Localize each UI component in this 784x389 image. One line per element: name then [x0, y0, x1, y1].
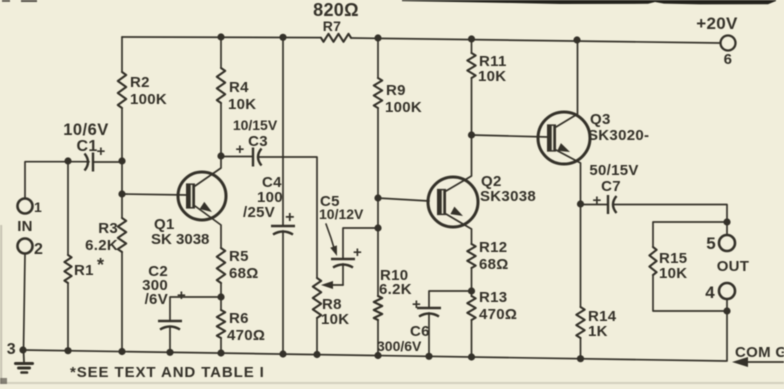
svg-text:+: +	[177, 287, 186, 304]
wire: C5 branch from base divider	[343, 228, 378, 258]
node: C5 tap	[374, 224, 381, 231]
svg-text:50/15V: 50/15V	[589, 162, 638, 179]
resistor R15	[649, 247, 656, 275]
wire: collector to C3	[221, 156, 253, 158]
wire: C7 to output	[614, 205, 727, 236]
resistor R6	[217, 310, 225, 338]
svg-text:3: 3	[7, 341, 16, 358]
svg-text:*SEE TEXT AND TABLE I: *SEE TEXT AND TABLE I	[70, 364, 265, 381]
svg-text:4: 4	[705, 283, 715, 302]
svg-text:+20V: +20V	[696, 14, 738, 33]
svg-text:R3: R3	[98, 220, 118, 237]
node 3	[19, 346, 26, 353]
svg-text:10K: 10K	[659, 265, 687, 282]
capacitor C4 100/25V	[271, 225, 295, 227]
node: rail / Q3 collector	[573, 36, 580, 43]
wire: to C7	[581, 204, 609, 206]
wire: +20V top rail left section	[122, 36, 321, 39]
wire: C1 to base column	[93, 161, 122, 163]
capacitor C5 10/12V	[331, 258, 355, 260]
transistor Q3	[538, 112, 590, 164]
svg-text:+: +	[96, 143, 105, 160]
svg-text:10/6V: 10/6V	[63, 121, 109, 139]
svg-text:+: +	[235, 141, 244, 158]
terminal 5 OUT	[719, 235, 735, 251]
svg-text:10/12V: 10/12V	[319, 206, 364, 222]
svg-text:SK3038: SK3038	[480, 188, 536, 205]
svg-text:/25V: /25V	[243, 204, 275, 221]
wire: R1 column	[67, 161, 69, 255]
svg-text:+: +	[285, 209, 295, 226]
wire: R11 from rail	[471, 39, 473, 53]
svg-text:R13: R13	[479, 289, 507, 306]
resistor R7 820 ohm (series in rail)	[321, 34, 351, 42]
svg-text:R5: R5	[229, 248, 249, 265]
wire: R4 column from rail	[220, 37, 222, 68]
wire R6 to ground	[220, 338, 222, 353]
svg-text:R2: R2	[130, 74, 150, 91]
wire: R8 to ground	[316, 318, 318, 355]
wire: Q1 base lead	[122, 194, 187, 195]
wire/loop: R15 branch	[653, 222, 727, 247]
resistor R12	[467, 244, 475, 268]
svg-text:6.2K: 6.2K	[379, 281, 412, 298]
wire: C4 to ground	[282, 231, 284, 354]
svg-text:C1: C1	[76, 138, 97, 155]
wire: R9 column from rail	[377, 38, 379, 78]
wire: C5 bottom to wiper	[342, 264, 344, 285]
terminal 6 +20V	[721, 36, 736, 51]
resistor R13	[467, 296, 475, 320]
capacitor C7 50/15V	[607, 195, 609, 214]
scan artifact: left edge shading	[0, 225, 2, 384]
svg-text:+: +	[412, 296, 421, 313]
svg-text:2: 2	[34, 241, 43, 258]
wire: emitter down to R14	[580, 204, 582, 307]
svg-text:10K: 10K	[478, 68, 506, 85]
wire: down to base node	[121, 161, 123, 194]
wire: base node to R3	[121, 194, 123, 218]
wire: R2 column from rail down to C1 node	[121, 37, 123, 72]
svg-text:R7: R7	[323, 18, 342, 34]
potentiometer R8 10K	[313, 278, 321, 318]
svg-text:1K: 1K	[588, 323, 608, 340]
terminal 2 IN	[18, 239, 33, 254]
Q1 collector lead	[195, 156, 221, 186]
wire R12-R13	[471, 268, 473, 296]
svg-text:R9: R9	[386, 82, 406, 99]
wire: C4 column from rail (crosses C3 wire, no connection)	[282, 37, 284, 225]
svg-text:R1: R1	[74, 262, 94, 279]
transistor Q1	[178, 172, 226, 220]
resistor R10	[374, 296, 382, 320]
svg-text:Q3: Q3	[590, 111, 611, 128]
svg-text:100K: 100K	[385, 99, 422, 116]
wire: C3 to R8 pot top	[259, 157, 317, 278]
svg-text:C3: C3	[248, 133, 268, 150]
wire: R15 bottom to term4 node	[653, 275, 727, 311]
node: rail / R4 column	[217, 33, 224, 40]
resistor R2	[118, 72, 126, 108]
svg-text:SK3020-: SK3020-	[588, 127, 649, 144]
svg-text:10K: 10K	[321, 311, 349, 328]
resistor R11	[467, 53, 475, 78]
svg-text:+: +	[592, 192, 601, 209]
wire: C6 to ground	[428, 313, 430, 356]
Q2 collector lead	[446, 135, 472, 191]
resistor R14	[576, 307, 584, 338]
capacitor C6 300/6V	[417, 307, 441, 309]
svg-text:R6: R6	[229, 310, 249, 327]
svg-text:6: 6	[724, 51, 733, 68]
capacitor C1 10/6V	[92, 153, 94, 172]
Q1 emitter lead w/ arrow	[195, 206, 221, 248]
svg-text:OUT: OUT	[717, 258, 750, 275]
svg-text:/6V: /6V	[145, 291, 168, 308]
capacitor C2 300/6V	[158, 320, 182, 322]
node: R5/R6/C2 junction	[217, 293, 224, 300]
node: C1/R2 junction	[118, 157, 125, 164]
node: rail / R9 column	[374, 34, 381, 41]
svg-text:470Ω: 470Ω	[479, 306, 517, 323]
Q3 collector lead	[556, 40, 578, 127]
node: Q2 base tap	[374, 194, 381, 201]
svg-text:R4: R4	[229, 79, 249, 96]
wire: C2 to ground	[169, 327, 171, 353]
wire: C2 branch	[170, 297, 221, 321]
R8 wiper arrow from C5	[326, 284, 343, 286]
svg-text:820Ω: 820Ω	[313, 0, 359, 20]
scan artifact: bottom edge line	[0, 382, 784, 384]
svg-text:6.2K: 6.2K	[85, 237, 118, 254]
node: ground rail / R8	[313, 351, 320, 358]
svg-text:68Ω: 68Ω	[479, 256, 509, 273]
svg-text:100K: 100K	[130, 91, 167, 108]
svg-text:300/6V: 300/6V	[377, 338, 422, 354]
resistor R1	[64, 255, 71, 283]
node: Q1 collector / C3	[217, 152, 224, 159]
node: Q1 base node	[118, 190, 125, 197]
svg-text:R12: R12	[479, 239, 507, 256]
node: R1 tap	[64, 157, 71, 164]
terminal 4 OUT	[719, 283, 735, 299]
svg-text:68Ω: 68Ω	[229, 265, 259, 282]
svg-text:COM GND: COM GND	[735, 344, 784, 361]
wire: +20V top rail right section	[351, 38, 720, 43]
transistor Q2	[428, 177, 478, 227]
svg-text:5: 5	[706, 234, 716, 253]
wire: R14 to ground	[580, 338, 582, 359]
wire: common ground rail	[23, 350, 726, 361]
svg-text:IN: IN	[17, 218, 33, 235]
wire: Q2 base lead	[378, 198, 429, 201]
wire: R3 to ground rail	[121, 252, 123, 351]
node: terminal 4 / R15 bottom	[723, 307, 730, 314]
svg-text:10/15V: 10/15V	[233, 117, 278, 133]
svg-text:470Ω: 470Ω	[227, 327, 265, 344]
wire R5-R6	[220, 283, 222, 310]
wire: C6 branch	[429, 291, 472, 307]
resistor R3	[118, 218, 126, 252]
svg-text:C7: C7	[601, 178, 621, 195]
wire: terminal 4 down to ground rail	[726, 299, 728, 361]
node: R12/R13/C6 junction	[468, 287, 475, 294]
terminal 1 IN	[18, 199, 33, 214]
node: ground rail / R14	[577, 355, 584, 362]
wire: terminal 2 to ground rail	[24, 254, 26, 351]
node: rail / R11 column	[468, 35, 475, 42]
scan artifact: dark band along top edge	[402, 0, 776, 4]
node: ground rail / C2	[166, 349, 173, 356]
svg-text:1: 1	[34, 199, 42, 215]
svg-text:*: *	[97, 255, 104, 275]
node: rail / C4 column	[279, 34, 286, 41]
wire R13 to ground	[471, 320, 473, 357]
ground symbol	[23, 350, 26, 362]
capacitor C3 10/15V	[252, 148, 254, 167]
node: ground rail / R10	[374, 352, 381, 359]
node: Q2 collector / Q3 base	[468, 131, 475, 138]
node: C7 tap	[577, 200, 584, 207]
resistor R5	[217, 248, 225, 283]
node: ground rail / C4	[279, 350, 286, 357]
Q2 emitter lead w/ arrow	[446, 214, 472, 244]
Q3 emitter lead w/ arrow	[556, 150, 581, 204]
resistor R9	[374, 78, 382, 108]
node: ground rail / R3	[118, 348, 125, 355]
svg-text:10K: 10K	[228, 96, 256, 113]
node: ground rail / R13	[468, 353, 475, 360]
wire: input top to C1	[25, 162, 89, 198]
svg-text:SK 3038: SK 3038	[151, 231, 209, 248]
wire: Q3 base lead	[472, 135, 549, 137]
svg-text:+: +	[353, 244, 362, 261]
node: R15 top tap	[723, 218, 730, 225]
resistor R4	[217, 68, 225, 103]
wire: R10 to ground	[377, 320, 379, 356]
node: ground rail / C6	[425, 353, 432, 360]
node: ground rail / R6	[217, 349, 224, 356]
node: ground rail / R1	[64, 347, 71, 354]
